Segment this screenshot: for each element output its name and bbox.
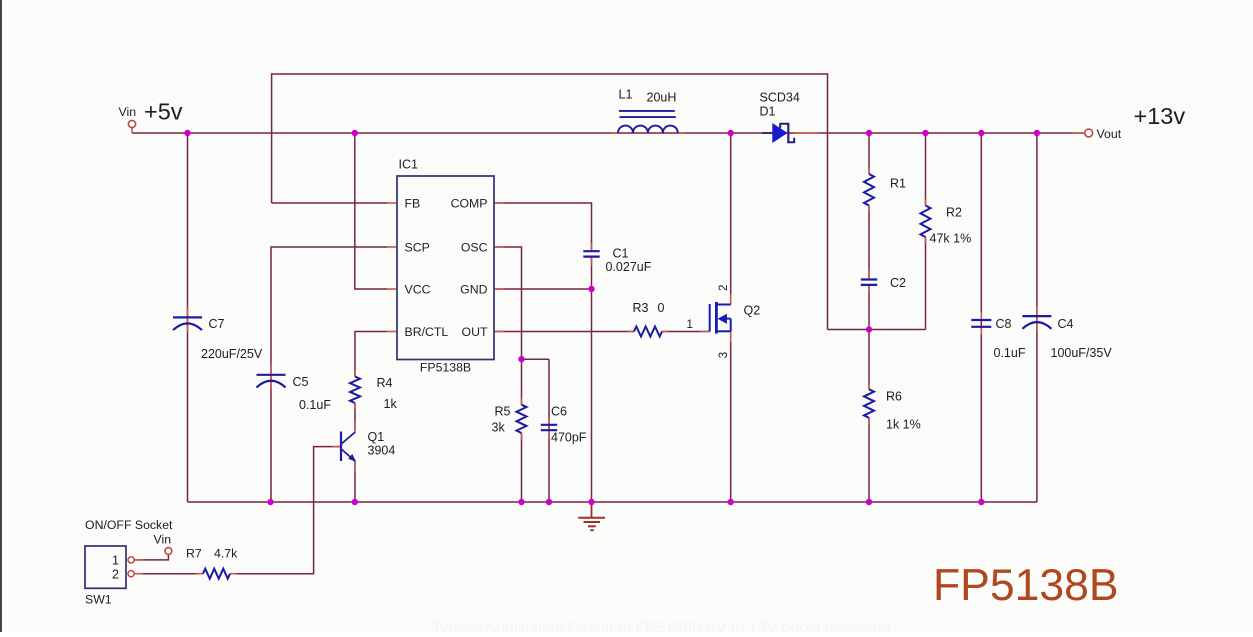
wire: C8 vertical — [980, 133, 982, 502]
wire: R2 chain vertical — [925, 133, 927, 206]
svg-text:220uF/25V: 220uF/25V — [201, 347, 263, 361]
wire: C4 vertical — [1036, 133, 1038, 502]
svg-text:3k: 3k — [492, 421, 506, 435]
svg-text:C8: C8 — [996, 317, 1012, 331]
resistor R6 — [864, 389, 874, 418]
diode D1 (SCD34 schottky) — [772, 123, 787, 143]
wire: SW1 pin1 to Vin socket terminal — [134, 555, 168, 560]
wire: OSC pin run down to R5/C6 node — [494, 247, 522, 359]
wire: main +5v/Vin top rail y=133 — [132, 132, 1085, 134]
svg-text:FB: FB — [405, 197, 421, 211]
svg-text:OUT: OUT — [462, 325, 488, 339]
svg-text:470pF: 470pF — [551, 431, 587, 445]
ground symbol — [591, 502, 593, 518]
capacitor C5 — [257, 374, 286, 376]
resistor R2 — [921, 206, 931, 238]
svg-text:FP5138B: FP5138B — [420, 361, 471, 375]
wire: feedback divider horizontal y=329.5 — [828, 329, 926, 331]
svg-text:20uH: 20uH — [647, 91, 677, 105]
wire: Q2 drain vertical — [730, 133, 732, 305]
junction dot OSC/R5/C6 node — [518, 356, 524, 362]
svg-text:0.027uF: 0.027uF — [606, 260, 652, 274]
svg-text:D1: D1 — [760, 105, 776, 119]
capacitor stubs — [187, 307, 189, 317]
svg-text:1k: 1k — [384, 397, 398, 411]
junction dots on ground rail — [267, 499, 273, 505]
svg-text:C5: C5 — [293, 375, 309, 389]
svg-text:1: 1 — [687, 319, 693, 331]
svg-text:2: 2 — [718, 285, 730, 291]
wire: GND node down to ground — [591, 289, 593, 502]
wire: R1/C2/R6 chain vertical — [868, 133, 870, 174]
L1 stubs — [610, 132, 618, 134]
junction dot GND/C1 node — [588, 286, 594, 292]
svg-text:1k 1%: 1k 1% — [886, 418, 921, 432]
svg-text:+13v: +13v — [1134, 103, 1186, 129]
capacitor C4 — [1022, 315, 1051, 317]
left page border line — [0, 0, 2, 632]
wire: COMP pin run to C1 top — [494, 203, 592, 251]
svg-text:+5v: +5v — [144, 99, 183, 125]
svg-text:VCC: VCC — [405, 283, 431, 297]
svg-text:Vin: Vin — [154, 533, 172, 547]
svg-text:R3: R3 — [633, 301, 649, 315]
wire: SW1 pin2 to R7 — [134, 573, 203, 575]
SW1 pin stubs — [134, 559, 143, 561]
wire: Q2 source vertical — [730, 331, 732, 502]
wire: Q1 base run to R7/SW1 — [230, 447, 341, 574]
svg-text:4.7k: 4.7k — [214, 547, 238, 561]
svg-text:FP5138B: FP5138B — [933, 561, 1119, 610]
IC op-chip U1 FP5138B box — [397, 176, 494, 360]
transistor Q2 (NMOS) — [709, 304, 711, 332]
wire: SCP pin run to C5 branch — [271, 247, 387, 502]
svg-text:BR/CTL: BR/CTL — [405, 325, 449, 339]
wire: BR/CTL run down to R4 — [355, 332, 387, 377]
svg-text:0.1uF: 0.1uF — [299, 398, 331, 412]
svg-text:IC1: IC1 — [399, 158, 419, 172]
Vout terminal stub — [1072, 132, 1085, 134]
svg-text:GND: GND — [460, 283, 487, 297]
D1 stubs — [762, 132, 772, 134]
connector SW1 box — [85, 546, 126, 588]
wire: R5/C6 branch horizontal — [522, 358, 550, 360]
svg-text:Q2: Q2 — [744, 304, 761, 318]
svg-text:C1: C1 — [613, 247, 629, 261]
svg-text:Vin: Vin — [119, 105, 137, 119]
pin circle SW1-2 — [128, 571, 134, 577]
svg-text:R2: R2 — [946, 206, 962, 220]
svg-text:0.1uF: 0.1uF — [994, 346, 1026, 360]
svg-text:Vout: Vout — [1097, 127, 1122, 141]
svg-text:L1: L1 — [619, 88, 633, 102]
wire: Vin terminal stub — [131, 127, 133, 133]
svg-text:SW1: SW1 — [85, 593, 112, 607]
svg-text:Typical Application Circuit: Typical Application Circuit of FP5138B 5… — [432, 620, 892, 632]
svg-text:OSC: OSC — [461, 241, 488, 255]
wire: GND pin run — [494, 288, 592, 290]
node Vout terminal — [1085, 129, 1093, 137]
svg-text:R4: R4 — [377, 376, 393, 390]
svg-text:C4: C4 — [1058, 317, 1074, 331]
svg-text:C2: C2 — [890, 276, 906, 290]
resistor R4 — [350, 377, 360, 404]
capacitor C6 — [541, 424, 557, 426]
pin circle SW1-1 — [128, 557, 134, 563]
svg-text:3904: 3904 — [368, 444, 396, 458]
capacitor C1 — [583, 250, 599, 252]
svg-text:ON/OFF Socket: ON/OFF Socket — [85, 518, 173, 532]
svg-text:100uF/35V: 100uF/35V — [1051, 346, 1113, 360]
Q1 pin stubs — [354, 422, 356, 432]
Q2 pin stubs — [700, 331, 710, 333]
svg-text:COMP: COMP — [451, 197, 488, 211]
junction dot feedback divider node — [866, 326, 872, 332]
wire: Q1 emitter to bottom rail — [354, 462, 356, 502]
svg-text:Q1: Q1 — [368, 430, 385, 444]
wire: feedback top run y=74 — [272, 74, 828, 330]
wire: bottom ground rail y=502 — [188, 501, 1037, 503]
svg-text:C7: C7 — [209, 317, 225, 331]
inductor L1 — [618, 126, 678, 133]
wire: C6 vertical — [548, 359, 550, 502]
svg-text:SCP: SCP — [405, 241, 430, 255]
wire: OUT pin run to R3 and Q2 gate — [494, 331, 634, 333]
capacitor C7 — [173, 316, 202, 318]
resistor R5 — [517, 405, 527, 433]
wire: C7 vertical — [187, 133, 189, 317]
resistor R7 — [203, 569, 230, 579]
IC1 pin stubs — [387, 202, 397, 204]
wire: FB pin run y=203 — [272, 202, 387, 204]
svg-text:2: 2 — [112, 567, 119, 581]
capacitor C8 — [971, 319, 991, 321]
transistor Q1 — [340, 432, 342, 462]
svg-text:R1: R1 — [890, 177, 906, 191]
node Vin socket terminal — [165, 548, 172, 555]
wire: C1 bottom to GND node — [591, 257, 593, 290]
capacitor C2 — [861, 278, 877, 280]
resistor stubs — [868, 168, 870, 174]
svg-text:SCD34: SCD34 — [760, 91, 800, 105]
resistor R3 — [634, 327, 662, 337]
svg-text:R5: R5 — [495, 405, 511, 419]
wire: VCC pin run from top rail — [355, 133, 387, 289]
svg-text:C6: C6 — [551, 405, 567, 419]
svg-text:R7: R7 — [186, 547, 202, 561]
node Vin terminal — [128, 120, 135, 127]
svg-text:47k 1%: 47k 1% — [930, 232, 972, 246]
junction dots on +5v rail — [184, 130, 190, 136]
svg-text:0: 0 — [658, 301, 665, 315]
svg-text:R6: R6 — [886, 390, 902, 404]
resistor R1 — [864, 174, 874, 206]
wire: R5 vertical to rail — [521, 359, 523, 405]
svg-text:1: 1 — [112, 554, 119, 568]
svg-text:3: 3 — [718, 352, 730, 358]
wire: R4 bottom to Q1 collector — [354, 403, 356, 432]
